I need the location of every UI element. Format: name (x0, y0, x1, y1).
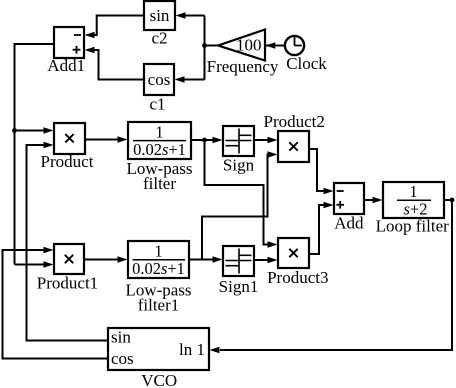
wire branch vertical sin/cos feed (204, 16, 206, 80)
svg-text:Sign: Sign (223, 156, 255, 175)
wire Clock to gain (265, 42, 285, 49)
node gain branch dot (202, 43, 207, 48)
gain Frequency (100) (218, 30, 265, 61)
wire Sign to Product2 input 1 (254, 137, 278, 144)
block Product (54, 123, 85, 154)
wire Low-pass filter to Sign (191, 137, 223, 144)
wire to cos input (175, 76, 205, 83)
wire Low-pass filter1 to Sign1 (189, 256, 223, 263)
block sin (c2) (144, 1, 175, 30)
wire Sign1 to Product3 input 2 (254, 257, 278, 264)
block Sign (223, 126, 254, 156)
svg-text:ln 1: ln 1 (179, 340, 205, 359)
svg-text:sin: sin (150, 6, 170, 25)
wire VCO cos output to Product1 input 1 (3, 247, 109, 359)
wire sin output to Add1 minus (85, 16, 145, 39)
svg-text:Add: Add (334, 214, 364, 233)
block Product2 (278, 131, 309, 162)
wire Product to Low-pass filter (85, 136, 128, 143)
svg-text:cos: cos (148, 70, 171, 89)
svg-text:Loop filter: Loop filter (376, 217, 450, 236)
wire cross from LPF to Product3 input 1 (205, 140, 278, 248)
block Sign1 (223, 246, 254, 276)
svg-text:Product3: Product3 (267, 268, 328, 287)
block Low-pass filter (128, 122, 191, 159)
wire Loop filter output to VCO input (210, 200, 453, 353)
svg-text:c2: c2 (151, 29, 167, 48)
wire Add to Loop filter (364, 197, 383, 204)
svg-text:cos: cos (111, 349, 134, 368)
wire cross from LPF1 to Product2 input 2 (202, 151, 278, 259)
block Product1 (54, 244, 84, 274)
block Loop filter (383, 182, 444, 219)
svg-text:Clock: Clock (286, 54, 327, 73)
wire gain output to branch node (205, 45, 219, 47)
svg-text:filter1: filter1 (138, 296, 180, 315)
svg-text:Product1: Product1 (37, 274, 98, 293)
block VCO (108, 327, 209, 370)
wire branch to Product1 input 2 (15, 261, 54, 268)
block Product3 (278, 238, 309, 268)
svg-text:0.02s+1: 0.02s+1 (132, 259, 185, 278)
block Add1 (54, 27, 84, 58)
node Loop filter output dot (450, 198, 455, 203)
wire Product2 to Add minus (309, 149, 334, 194)
svg-text:1: 1 (409, 182, 417, 201)
svg-text:VCO: VCO (141, 371, 177, 388)
wire to sin input (176, 12, 205, 19)
wire Product3 to Add plus (309, 202, 334, 254)
svg-text:filter: filter (143, 174, 176, 193)
svg-text:Add1: Add1 (47, 56, 85, 75)
label Low-pass filter (126, 159, 192, 193)
block Clock (285, 36, 304, 55)
block cos (c1) (144, 64, 174, 95)
svg-text:Product2: Product2 (264, 112, 325, 131)
svg-text:c1: c1 (149, 95, 165, 114)
label Low-pass filter1 (125, 281, 191, 315)
wire VCO sin output to Product input 2 (27, 142, 109, 341)
svg-text:1: 1 (155, 123, 163, 142)
svg-text:Product: Product (41, 152, 94, 171)
svg-text:0.02s+1: 0.02s+1 (133, 140, 186, 159)
block Low-pass filter1 (128, 241, 189, 278)
svg-text:sin: sin (111, 327, 131, 346)
wire branch to Product input 1 (15, 127, 54, 134)
svg-text:Frequency: Frequency (207, 57, 279, 76)
node LPF branch dot (202, 138, 207, 143)
svg-text:Sign1: Sign1 (219, 277, 259, 296)
wire Add1 output down left side (15, 44, 55, 265)
wire cos output to Add1 plus (85, 47, 145, 80)
node Add1 branch dot (12, 128, 17, 133)
block Add (334, 183, 364, 214)
wire Product1 to Low-pass filter1 (84, 256, 128, 263)
svg-text:100: 100 (236, 36, 262, 55)
svg-text:1: 1 (154, 242, 162, 261)
